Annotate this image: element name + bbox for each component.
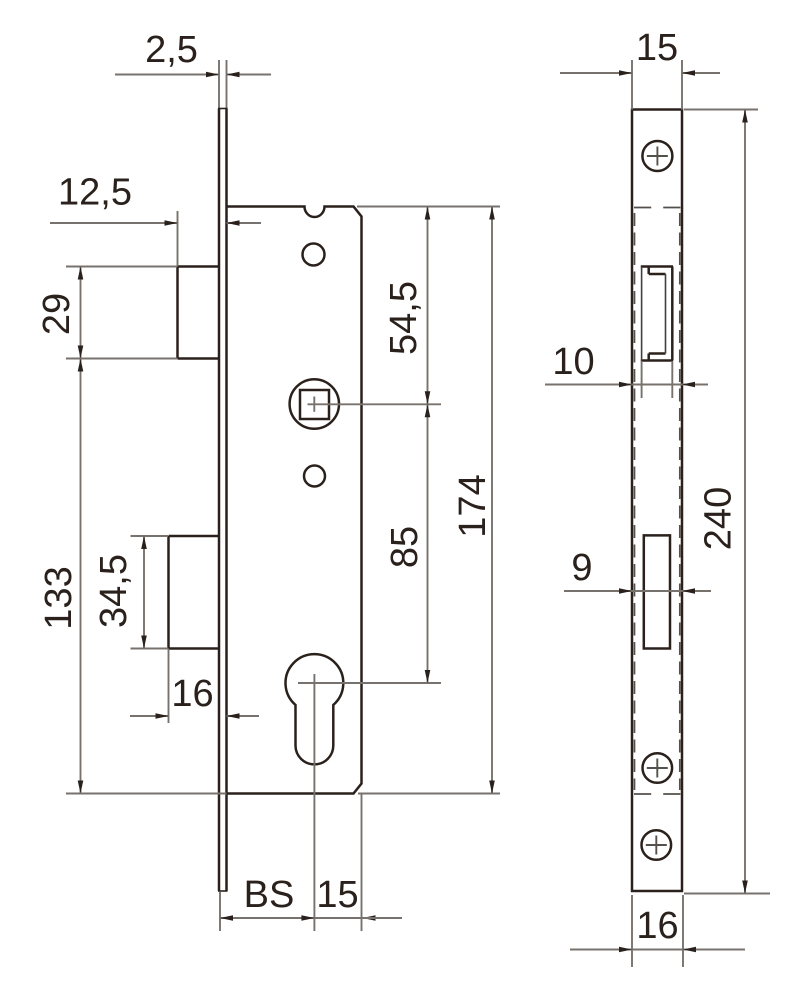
svg-text:15: 15 [316, 874, 358, 916]
svg-text:2,5: 2,5 [145, 29, 198, 71]
svg-text:174: 174 [452, 474, 494, 537]
svg-text:133: 133 [38, 566, 80, 629]
svg-text:34,5: 34,5 [93, 554, 135, 628]
svg-text:29: 29 [36, 293, 78, 335]
svg-text:15: 15 [636, 27, 678, 69]
svg-text:12,5: 12,5 [58, 172, 132, 214]
svg-text:54,5: 54,5 [383, 281, 425, 355]
svg-text:10: 10 [552, 341, 594, 383]
svg-text:85: 85 [384, 526, 426, 568]
svg-text:240: 240 [698, 487, 740, 550]
svg-text:16: 16 [171, 673, 213, 715]
svg-text:9: 9 [571, 547, 592, 589]
svg-text:BS: BS [244, 874, 295, 916]
svg-text:16: 16 [636, 905, 678, 947]
